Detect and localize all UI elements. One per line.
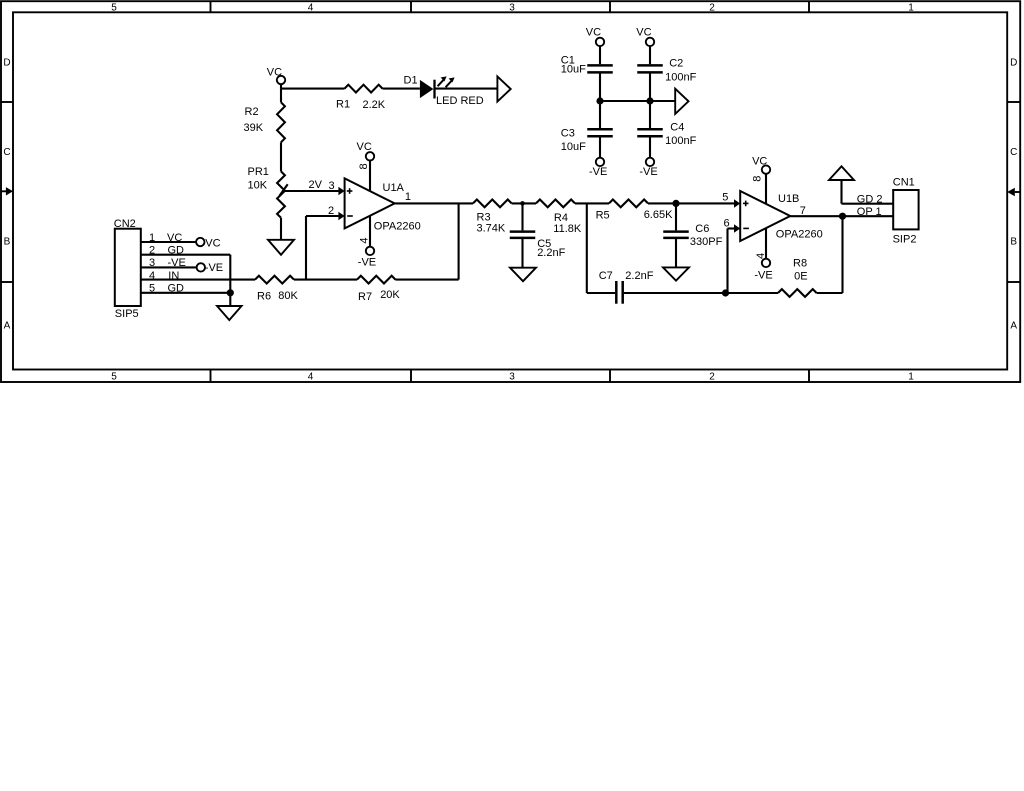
svg-text:1: 1	[405, 191, 411, 203]
svg-text:R6: R6	[257, 290, 271, 302]
svg-text:U1B: U1B	[778, 193, 799, 205]
svg-text:5: 5	[149, 283, 155, 295]
svg-text:6.65K: 6.65K	[644, 209, 673, 221]
svg-text:GD: GD	[168, 283, 185, 295]
svg-text:-VE: -VE	[639, 166, 657, 178]
svg-text:VC: VC	[205, 237, 220, 249]
svg-text:VC: VC	[357, 141, 372, 153]
svg-text:B: B	[4, 237, 11, 248]
svg-text:C: C	[1010, 147, 1017, 158]
svg-text:VC: VC	[586, 26, 601, 38]
svg-text:-VE: -VE	[168, 257, 186, 269]
svg-text:R1: R1	[336, 98, 350, 110]
svg-text:VC: VC	[636, 26, 651, 38]
svg-text:3.74K: 3.74K	[477, 222, 506, 234]
svg-text:3: 3	[509, 372, 515, 383]
svg-text:D: D	[1010, 58, 1017, 69]
svg-text:R5: R5	[596, 210, 610, 222]
svg-text:4: 4	[358, 238, 370, 244]
svg-text:7: 7	[800, 205, 806, 217]
svg-text:LED RED: LED RED	[436, 95, 484, 107]
svg-text:330PF: 330PF	[690, 236, 723, 248]
svg-text:2: 2	[328, 205, 334, 217]
svg-text:1: 1	[908, 2, 914, 13]
svg-text:0E: 0E	[794, 270, 807, 282]
svg-text:4: 4	[755, 253, 767, 259]
svg-text:10uF: 10uF	[561, 141, 586, 153]
svg-text:SIP2: SIP2	[893, 233, 917, 245]
svg-text:VC: VC	[167, 232, 182, 244]
svg-text:2.2nF: 2.2nF	[537, 247, 565, 259]
svg-text:-VE: -VE	[754, 269, 772, 281]
svg-text:-VE: -VE	[589, 166, 607, 178]
svg-text:D1: D1	[404, 75, 418, 87]
svg-text:C2: C2	[669, 58, 683, 70]
svg-text:8: 8	[358, 163, 370, 169]
svg-text:2: 2	[709, 2, 715, 13]
svg-text:C: C	[3, 147, 10, 158]
svg-text:A: A	[4, 321, 11, 332]
svg-text:2: 2	[149, 245, 155, 257]
svg-text:-VE: -VE	[205, 262, 223, 274]
svg-text:1: 1	[149, 232, 155, 244]
svg-text:3: 3	[509, 2, 515, 13]
svg-text:2V: 2V	[309, 179, 323, 191]
svg-text:11.8K: 11.8K	[553, 223, 582, 235]
svg-text:CN1: CN1	[893, 176, 915, 188]
svg-text:VC: VC	[267, 66, 282, 78]
svg-text:3: 3	[329, 180, 335, 192]
svg-text:GD 2: GD 2	[857, 194, 883, 206]
svg-text:5: 5	[111, 372, 117, 383]
svg-text:5: 5	[722, 191, 728, 203]
svg-text:R7: R7	[358, 291, 372, 303]
svg-text:10K: 10K	[248, 180, 268, 192]
svg-text:4: 4	[308, 2, 314, 13]
svg-text:C3: C3	[561, 128, 575, 140]
svg-text:100nF: 100nF	[665, 71, 696, 83]
svg-text:100nF: 100nF	[665, 135, 696, 147]
svg-text:C4: C4	[670, 121, 684, 133]
svg-text:SIP5: SIP5	[115, 308, 139, 320]
svg-text:2.2nF: 2.2nF	[625, 270, 653, 282]
svg-text:CN2: CN2	[114, 218, 136, 230]
svg-text:C6: C6	[695, 223, 709, 235]
svg-text:4: 4	[308, 372, 314, 383]
svg-text:R2: R2	[245, 106, 259, 118]
svg-text:2.2K: 2.2K	[363, 99, 386, 111]
svg-text:6: 6	[724, 217, 730, 229]
svg-text:3: 3	[149, 257, 155, 269]
svg-text:1: 1	[908, 372, 914, 383]
svg-text:B: B	[1010, 237, 1017, 248]
svg-text:4: 4	[149, 270, 155, 282]
svg-text:D: D	[3, 58, 10, 69]
svg-text:OP 1: OP 1	[857, 206, 882, 218]
svg-text:5: 5	[111, 2, 117, 13]
svg-text:39K: 39K	[244, 122, 264, 134]
svg-text:2: 2	[709, 372, 715, 383]
svg-text:VC: VC	[752, 156, 767, 168]
svg-text:PR1: PR1	[248, 166, 269, 178]
svg-text:20K: 20K	[380, 289, 400, 301]
svg-text:A: A	[1010, 321, 1017, 332]
svg-text:R8: R8	[793, 258, 807, 270]
svg-text:OPA2260: OPA2260	[374, 220, 421, 232]
svg-text:-VE: -VE	[358, 256, 376, 268]
svg-text:8: 8	[751, 176, 763, 182]
svg-text:GD: GD	[168, 245, 185, 257]
svg-text:C7: C7	[599, 270, 613, 282]
svg-text:10uF: 10uF	[561, 63, 586, 75]
svg-text:U1A: U1A	[383, 182, 405, 194]
svg-text:OPA2260: OPA2260	[776, 229, 823, 241]
svg-text:IN: IN	[168, 270, 179, 282]
svg-text:80K: 80K	[278, 290, 298, 302]
